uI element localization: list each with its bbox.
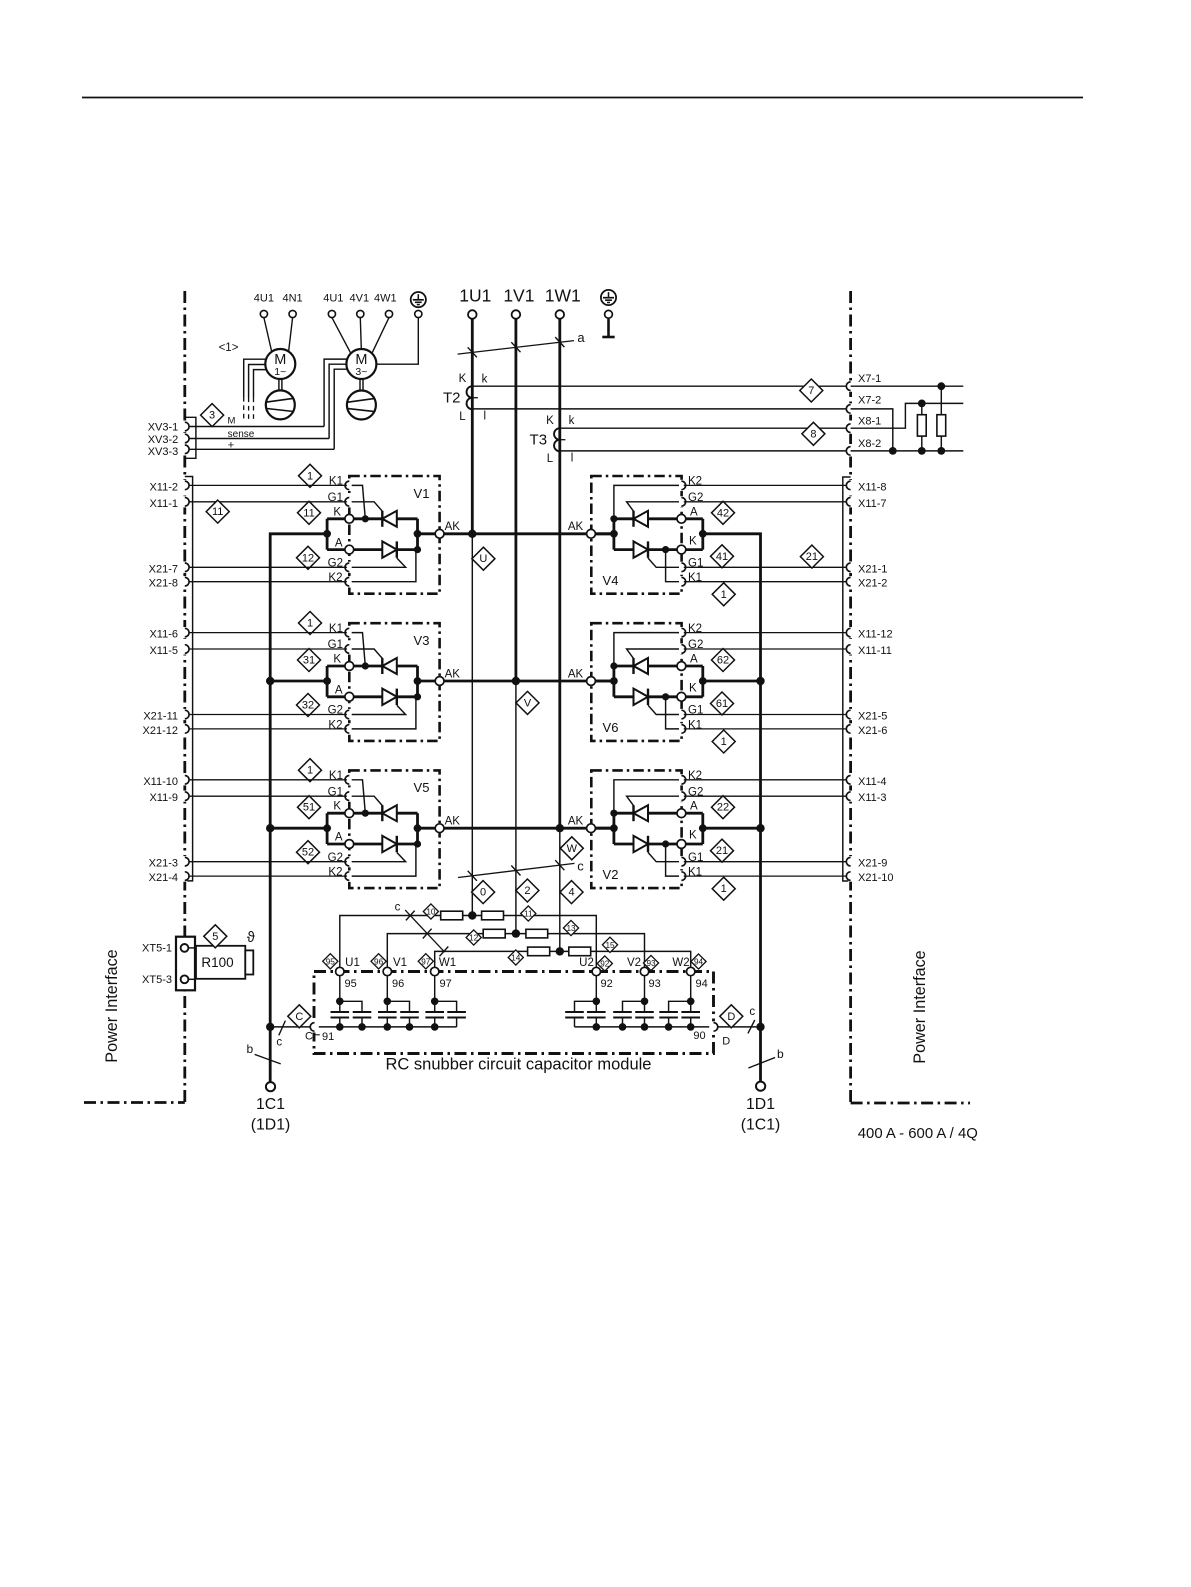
diamond 3 [201, 404, 224, 427]
right bus junctions [756, 677, 764, 685]
T3 secondary wire k to X8-1 [560, 427, 847, 429]
svg-text:V: V [524, 697, 532, 709]
svg-text:X8-1: X8-1 [858, 415, 881, 427]
left power-interface border (dash-dot) [84, 291, 185, 1103]
svg-text:X21-9: X21-9 [858, 858, 887, 870]
wire X7-1 [851, 385, 964, 387]
svg-text:l: l [571, 453, 574, 465]
svg-text:93: 93 [646, 959, 656, 968]
thyristor V2.1 (bottom) [634, 836, 649, 852]
V1 G1 gate [345, 502, 382, 511]
V1 AK tap [414, 530, 422, 538]
V1 A row thick [354, 548, 418, 551]
V6 K2 jog [614, 633, 686, 665]
left DC bus to 1C1 [270, 534, 327, 1082]
M3 PE wire [376, 318, 418, 364]
V4 border terminal arcs [848, 480, 853, 491]
thyristor V6.2 (top) [632, 658, 634, 674]
diamond 5 [204, 925, 227, 948]
V5 right vertical [416, 813, 419, 844]
tick diag row3 [440, 947, 449, 957]
svg-text:Power Interface: Power Interface [103, 949, 121, 1062]
diamond 8 [802, 422, 825, 445]
tick c-1U1 [468, 871, 477, 881]
svg-text:K: K [459, 373, 467, 385]
svg-text:A: A [335, 685, 343, 697]
svg-text:U1: U1 [345, 957, 360, 969]
M3 sensor wire M [324, 359, 347, 426]
svg-text:X11-1: X11-1 [149, 498, 178, 510]
svg-text:2: 2 [524, 885, 530, 897]
V1 border terminal arcs [182, 480, 187, 491]
wire to U2 [504, 916, 597, 972]
temperature sensor R100 [196, 946, 245, 979]
tick c-1V1 [511, 866, 520, 876]
phase line 1U1 (thick) [471, 319, 474, 534]
svg-text:1U1: 1U1 [459, 286, 491, 306]
V3 G2 gate [345, 705, 406, 714]
V1 diamonds [299, 464, 322, 487]
svg-text:U2: U2 [579, 957, 594, 969]
V4 gate/cathode wires to border terminals [686, 484, 847, 486]
svg-text:94: 94 [696, 978, 708, 990]
svg-text:K: K [333, 654, 341, 666]
svg-text:L: L [547, 453, 554, 465]
XT5 terminal block [176, 937, 195, 991]
V6 G2 gate [627, 649, 686, 658]
diamond W (phase W marker) [560, 837, 583, 860]
wire X7-2 jog to X8-2 [851, 409, 893, 451]
V4 G1 gate [648, 558, 686, 567]
svg-text:8: 8 [810, 428, 816, 440]
snubber row V: wire from V1 [387, 934, 483, 972]
svg-text:Power Interface: Power Interface [911, 950, 929, 1063]
svg-text:X21-6: X21-6 [858, 725, 887, 737]
diamond C [288, 1005, 311, 1028]
V1 bus stub [327, 519, 345, 550]
svg-text:21: 21 [716, 845, 728, 857]
V5 K1 jog [345, 780, 365, 813]
V4 K2 jog [614, 485, 686, 517]
svg-text:K: K [689, 683, 697, 695]
svg-text:D: D [722, 1036, 730, 1048]
V3 bus stub [327, 666, 345, 697]
svg-text:X11-5: X11-5 [149, 645, 178, 657]
svg-text:k: k [482, 373, 488, 385]
T3 secondary wire l to X8-2 [560, 450, 847, 452]
V3 terminals on box edge [347, 627, 352, 638]
wire to V2 [548, 934, 645, 972]
V5 A row thick [354, 843, 418, 846]
V4 terminals on box edge [679, 480, 684, 491]
RC snubber module box [314, 972, 714, 1054]
right bus branch V2 [703, 827, 761, 830]
phase line 1V1 (thick) [515, 319, 518, 681]
V6 K1 jog [666, 698, 686, 729]
svg-text:92: 92 [601, 978, 613, 990]
svg-text:90: 90 [693, 1030, 705, 1042]
V2 diamonds [712, 877, 735, 900]
tick b left [255, 1054, 281, 1064]
svg-text:V1: V1 [414, 486, 430, 501]
V4 right rect [686, 519, 703, 550]
thyristor V4.2 (top) [632, 511, 634, 527]
svg-text:95: 95 [326, 957, 336, 966]
V5 K row thick [354, 812, 418, 815]
svg-text:X11-2: X11-2 [149, 481, 178, 493]
V2 bus stub [595, 813, 677, 844]
V3 K row thick [354, 665, 418, 668]
svg-text:b: b [246, 1042, 253, 1056]
right DC bus to 1D1 [703, 534, 761, 1082]
svg-text:W2: W2 [672, 957, 689, 969]
svg-text:l: l [484, 411, 487, 423]
svg-text:C: C [295, 1011, 303, 1023]
svg-text:X21-10: X21-10 [858, 872, 893, 884]
V5 G1 gate [345, 796, 382, 805]
wire 4U1 to M3 [332, 318, 351, 354]
node W on 1W1 [556, 947, 564, 955]
fan F3 [347, 391, 376, 420]
svg-text:K: K [333, 506, 341, 518]
svg-text:K: K [333, 801, 341, 813]
V3 K1 jog [345, 633, 365, 666]
thyristor V3.2 (bottom) [382, 689, 397, 705]
svg-text:0: 0 [480, 887, 486, 899]
left bus branch V5 [270, 827, 327, 830]
svg-text:XV3-1: XV3-1 [148, 422, 179, 434]
svg-text:51: 51 [303, 802, 315, 814]
diamond D [720, 1005, 743, 1028]
module V5 box [349, 770, 439, 888]
tick b right [748, 1058, 775, 1069]
V3 AK tap [414, 677, 422, 685]
V1 AK circle [435, 529, 444, 538]
tick a-1V1 [511, 342, 520, 352]
svg-text:V5: V5 [414, 780, 430, 795]
motor M3 (3~ fan motor) [346, 349, 376, 379]
V3 border terminal arcs [182, 627, 187, 638]
terminal 1D1 [756, 1082, 765, 1091]
svg-text:3: 3 [209, 410, 215, 422]
diamond V (phase V marker) [516, 691, 539, 714]
svg-text:A: A [690, 801, 698, 813]
svg-text:X11-4: X11-4 [858, 776, 887, 788]
svg-text:12: 12 [469, 934, 479, 943]
svg-text:X11-7: X11-7 [858, 498, 887, 510]
svg-text:R100: R100 [201, 955, 233, 970]
thyristor V5.1 (top) [381, 805, 383, 821]
V6 right rect [686, 666, 703, 697]
svg-text:X21-11: X21-11 [143, 711, 178, 723]
svg-text:X11-8: X11-8 [858, 481, 887, 493]
snubber diagonal c [405, 910, 444, 952]
M3 sensor wire sense [329, 364, 346, 438]
terminal X8-1 [848, 423, 853, 434]
svg-text:AK: AK [568, 521, 584, 533]
wires XT5 to R100 [188, 947, 196, 949]
svg-text:A: A [335, 832, 343, 844]
PE symbol right of 1W1 [601, 290, 616, 305]
wire [505, 933, 526, 935]
terminal 91 (C) [312, 1021, 317, 1032]
V4 G2 gate [627, 502, 686, 511]
svg-text:C: C [305, 1030, 313, 1042]
svg-text:AK: AK [445, 521, 461, 533]
svg-text:M: M [227, 416, 235, 427]
left capacitor bus [319, 1026, 457, 1028]
svg-text:97: 97 [421, 957, 431, 966]
svg-text:c: c [395, 902, 401, 914]
diamond U (phase U marker) [472, 547, 495, 570]
svg-text:V1: V1 [393, 957, 407, 969]
svg-text:1: 1 [721, 883, 727, 895]
svg-text:11: 11 [524, 910, 533, 919]
svg-text:21: 21 [806, 551, 818, 563]
svg-text:15: 15 [605, 941, 615, 950]
svg-text:XV3-3: XV3-3 [148, 446, 179, 458]
svg-text:4N1: 4N1 [283, 293, 303, 305]
svg-text:31: 31 [303, 655, 315, 667]
V6 G1 gate [648, 705, 686, 714]
V5 gate/cathode wires to border terminals [189, 779, 345, 781]
V2 border terminal arcs [848, 774, 853, 785]
wire X8-1 jog up [851, 403, 964, 428]
resistor RW1 [528, 947, 550, 956]
svg-text:13: 13 [566, 924, 576, 933]
thyristor V1.2 (bottom) [382, 541, 397, 557]
V2 junctions [610, 824, 618, 832]
svg-text:1D1: 1D1 [746, 1096, 775, 1113]
module V4 box [591, 476, 681, 594]
diamond 0 [472, 881, 495, 904]
diamond 4 [560, 881, 583, 904]
phase line 1U1 (thin lower) [471, 534, 473, 916]
node V on 1V1 [512, 929, 520, 937]
diamond 2 [516, 879, 539, 902]
svg-text:62: 62 [717, 655, 729, 667]
svg-text:XV3-2: XV3-2 [148, 434, 179, 446]
resistor RW2 [569, 947, 591, 956]
capacitor group left (C95-C97) [339, 976, 341, 1002]
svg-text:D: D [727, 1011, 735, 1023]
phase line 1W1 (thick) [558, 319, 561, 828]
V2 AK circle [587, 824, 596, 833]
node phase junction row 3 [556, 824, 564, 832]
svg-text:V2: V2 [627, 957, 641, 969]
svg-text:7: 7 [808, 385, 814, 397]
wire 4V1 to M3 [360, 318, 361, 349]
svg-text:sense: sense [228, 429, 255, 440]
tick a-1W1 [555, 337, 564, 347]
node phase junction row 2 [512, 677, 520, 685]
diamond 10 [423, 904, 438, 919]
wire to W2 [591, 951, 691, 971]
V2 G1 gate [648, 852, 686, 861]
terminal 90 (D) [711, 1021, 716, 1032]
svg-text:k: k [569, 415, 575, 427]
tick diag row1 [406, 911, 415, 921]
svg-text:A: A [335, 537, 343, 549]
thyristor V1.1 (top) [381, 511, 383, 527]
diamond 13s [563, 920, 578, 935]
M1 shaft [278, 379, 280, 390]
diamond 11s [521, 906, 536, 921]
svg-text:10: 10 [426, 908, 436, 917]
svg-text:4: 4 [568, 887, 574, 899]
svg-text:14: 14 [511, 954, 521, 963]
svg-text:11: 11 [303, 507, 314, 519]
thyristor V6.1 (bottom) [634, 689, 649, 705]
module V6 box [591, 623, 681, 741]
svg-text:X21-2: X21-2 [858, 578, 887, 590]
svg-text:22: 22 [717, 802, 729, 814]
svg-text:95: 95 [345, 978, 357, 990]
svg-text:A: A [690, 654, 698, 666]
M3 shaft [359, 379, 361, 390]
V4 junctions [610, 530, 618, 538]
svg-text:1~: 1~ [274, 366, 286, 378]
phase line 1V1 (thin lower) [515, 681, 517, 934]
V2 K1 jog [666, 845, 686, 876]
snubber top terminals [336, 967, 344, 975]
burden resistor R-b [940, 386, 942, 415]
V5 diamonds [299, 759, 322, 782]
left bus branch V3 [270, 680, 327, 683]
V3 K2 jog [345, 698, 416, 729]
svg-text:41: 41 [716, 551, 728, 563]
tick a-1U1 [468, 347, 477, 357]
V6 gate/cathode wires to border terminals [686, 632, 847, 634]
svg-text:4V1: 4V1 [350, 293, 370, 305]
svg-text:4W1: 4W1 [374, 293, 397, 305]
svg-text:(1C1): (1C1) [741, 1117, 781, 1134]
svg-text:K: K [689, 830, 697, 842]
V4 K1 jog [666, 551, 686, 582]
cut line a [458, 341, 574, 355]
svg-text:3~: 3~ [355, 366, 367, 378]
V5 G2 gate [345, 852, 406, 861]
thyristor V4.1 (bottom) [634, 541, 649, 557]
svg-text:32: 32 [302, 700, 314, 712]
diamond 15s [602, 937, 617, 952]
tick c-1W1 [555, 860, 564, 870]
svg-text:X21-4: X21-4 [149, 872, 178, 884]
svg-text:K: K [546, 415, 554, 427]
V6 bus stub [595, 666, 677, 697]
diamond 14s [508, 950, 523, 965]
svg-text:c: c [749, 1006, 755, 1018]
motor M1 (1~ fan motor) [265, 349, 295, 379]
svg-text:XT5-3: XT5-3 [142, 974, 172, 986]
svg-text:V4: V4 [603, 573, 619, 588]
V6 terminals on box edge [679, 627, 684, 638]
svg-text:5: 5 [212, 931, 218, 943]
junction dots X7/X8 [937, 382, 945, 390]
svg-text:RC snubber circuit capacitor m: RC snubber circuit capacitor module [386, 1056, 652, 1074]
svg-text:T3: T3 [530, 432, 548, 449]
terminal 1C1 [266, 1082, 275, 1091]
right terminal-group bracket [843, 477, 851, 881]
left bus junctions [266, 677, 274, 685]
svg-text:ϑ: ϑ [247, 930, 255, 946]
svg-text:T2: T2 [443, 390, 461, 407]
V1 K row thick [354, 517, 418, 520]
phase line 1W1 (thin lower) [559, 828, 561, 951]
V3 G1 gate [345, 649, 382, 658]
V3 gate/cathode wires to border terminals [189, 632, 345, 634]
V3 right vertical [416, 666, 419, 697]
svg-text:XT5-1: XT5-1 [142, 943, 172, 955]
resistor RV2 [526, 929, 548, 938]
thyristor V2.2 (top) [632, 805, 634, 821]
svg-text:(1D1): (1D1) [251, 1117, 291, 1134]
svg-text:61: 61 [716, 698, 728, 710]
V5 AK circle [435, 824, 444, 833]
svg-text:c: c [577, 859, 584, 874]
svg-text:X8-2: X8-2 [858, 438, 881, 450]
V3 diamonds [299, 612, 322, 635]
cut line c [458, 863, 574, 877]
capacitor group right (C92-C94) [595, 976, 597, 1002]
svg-text:+: + [228, 439, 234, 451]
diamond 21 (row1 extra) [800, 545, 823, 568]
svg-text:a: a [577, 330, 585, 345]
svg-text:X21-3: X21-3 [149, 858, 178, 870]
burden resistor R-a [921, 403, 923, 414]
svg-text:V3: V3 [414, 633, 430, 648]
T2 secondary wire l to X7-2 [472, 408, 846, 410]
V4 diamonds [712, 583, 735, 606]
tick c right [748, 1020, 755, 1033]
svg-text:1W1: 1W1 [545, 286, 581, 306]
AK row 3 thick link [418, 827, 614, 830]
PE symbol at motor [411, 292, 426, 307]
svg-text:1V1: 1V1 [503, 286, 534, 306]
svg-text:X21-7: X21-7 [149, 563, 178, 575]
svg-text:42: 42 [717, 507, 729, 519]
right power-interface border (dash-dot) [851, 291, 970, 1103]
svg-text:b: b [777, 1047, 784, 1061]
svg-text:1: 1 [721, 589, 727, 601]
V5 terminals on box edge [347, 774, 352, 785]
svg-text:1C1: 1C1 [256, 1096, 285, 1113]
svg-text:V6: V6 [603, 720, 619, 735]
svg-text:c: c [276, 1037, 282, 1049]
V2 terminals on box edge [679, 774, 684, 785]
V1 right vertical [416, 519, 419, 550]
V4 AK circle [587, 529, 596, 538]
svg-text:93: 93 [649, 978, 661, 990]
V3 A row thick [354, 695, 418, 698]
module V3 box [349, 623, 439, 741]
wire 4W1 to M3 [372, 318, 389, 354]
svg-text:X21-8: X21-8 [149, 578, 178, 590]
terminal X7-2 [848, 403, 853, 414]
V5 AK tap [414, 824, 422, 832]
AK row 2 thick link [418, 680, 614, 683]
V6 AK circle [587, 677, 596, 686]
diamond 11 (border, row1) [206, 500, 229, 523]
V2 K2 jog [614, 780, 686, 812]
svg-text:1: 1 [307, 470, 313, 482]
V2 G2 gate [627, 796, 686, 805]
V1 terminals on box edge [347, 480, 352, 491]
V1 gate/cathode wires to border terminals [189, 484, 345, 486]
wire M [189, 426, 324, 428]
svg-text:4U1: 4U1 [323, 293, 343, 305]
svg-text:52: 52 [302, 847, 314, 859]
